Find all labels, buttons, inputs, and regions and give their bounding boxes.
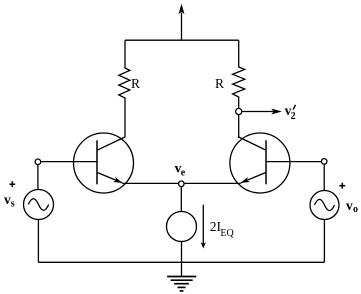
svg-text:o: o [353, 204, 358, 215]
svg-text:2: 2 [291, 111, 296, 122]
svg-text:s: s [11, 199, 15, 210]
svg-text:EQ: EQ [220, 228, 234, 239]
svg-text:e: e [181, 168, 186, 179]
svg-text:R: R [215, 76, 224, 91]
svg-text:R: R [131, 76, 140, 91]
svg-text:v: v [346, 198, 353, 213]
